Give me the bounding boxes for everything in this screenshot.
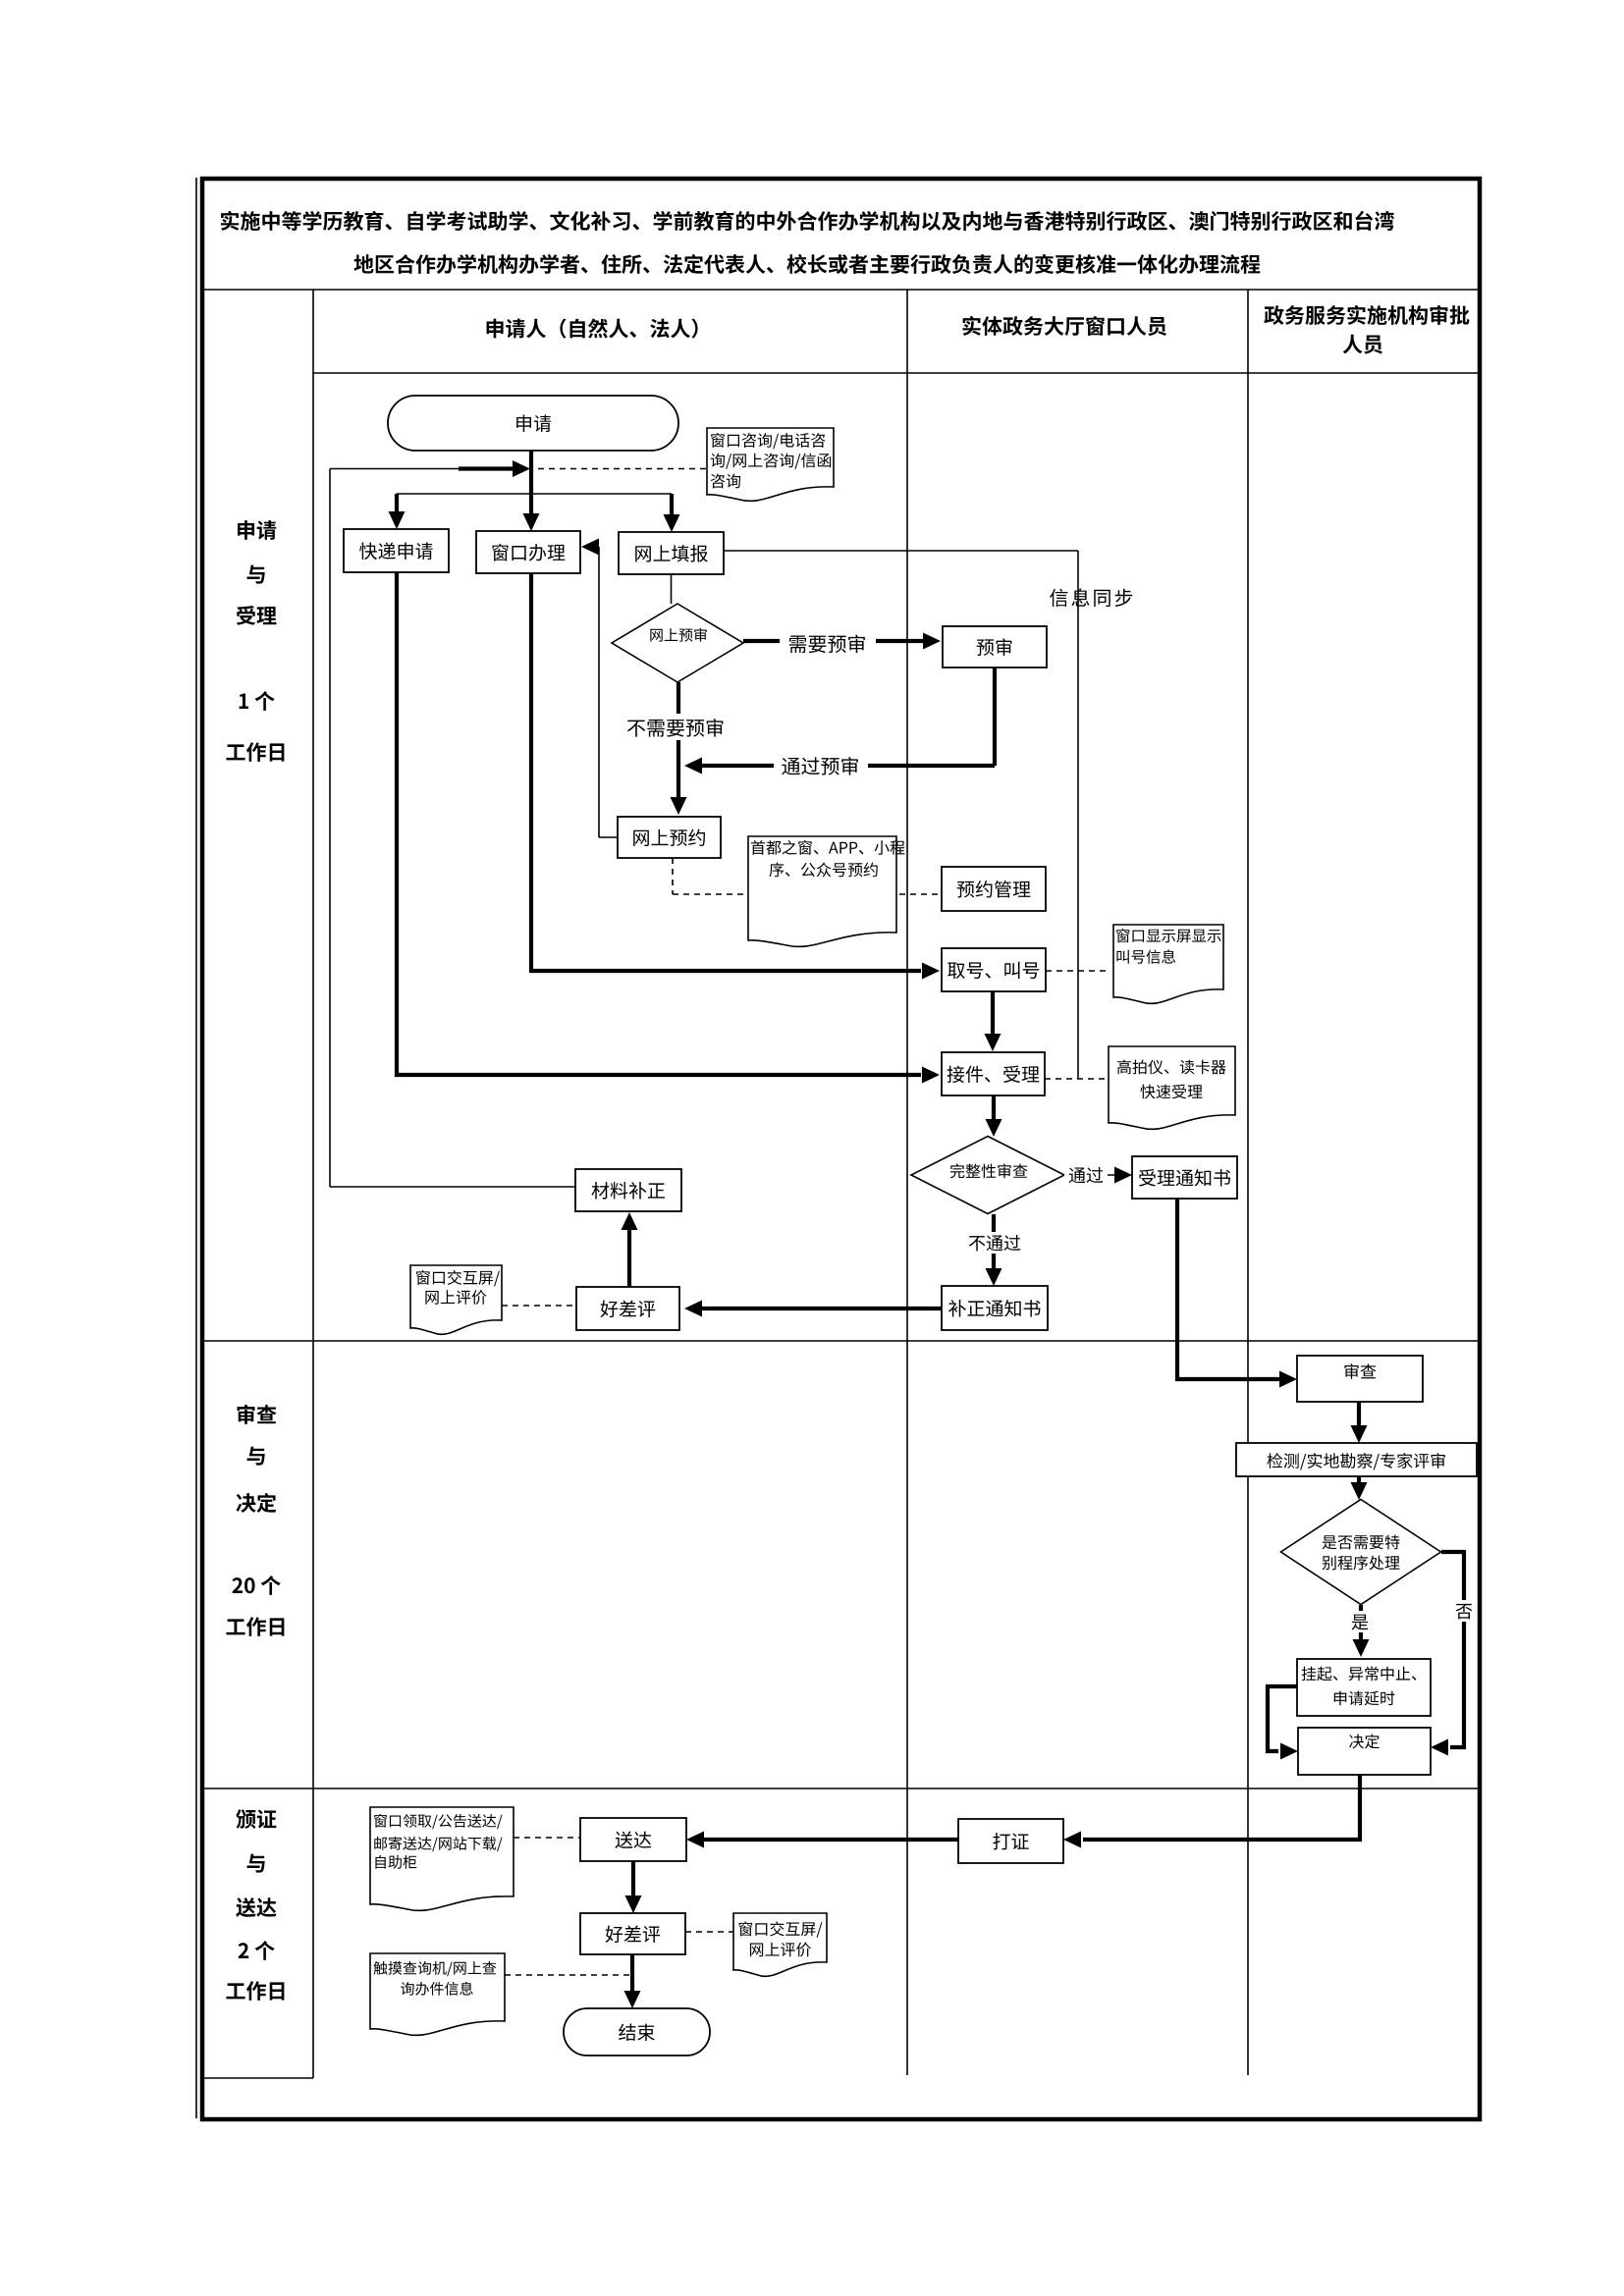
svg-text:送达: 送达 bbox=[236, 1893, 277, 1922]
svg-text:快速受理: 快速受理 bbox=[1140, 1079, 1203, 1102]
svg-text:2 个: 2 个 bbox=[238, 1936, 275, 1965]
svg-text:信息同步: 信息同步 bbox=[1050, 583, 1136, 612]
svg-text:别程序处理: 别程序处理 bbox=[1322, 1550, 1400, 1574]
svg-text:政务服务实施机构审批: 政务服务实施机构审批 bbox=[1264, 300, 1470, 330]
svg-text:与: 与 bbox=[246, 1848, 267, 1878]
svg-text:首都之窗、APP、小程: 首都之窗、APP、小程 bbox=[750, 835, 905, 859]
svg-text:预约管理: 预约管理 bbox=[956, 876, 1031, 902]
svg-text:取号、叫号: 取号、叫号 bbox=[947, 957, 1040, 984]
svg-text:补正通知书: 补正通知书 bbox=[947, 1295, 1041, 1321]
svg-text:决定: 决定 bbox=[236, 1488, 277, 1518]
svg-text:工作日: 工作日 bbox=[226, 1976, 288, 2005]
svg-text:1 个: 1 个 bbox=[238, 686, 275, 716]
svg-text:网上评价: 网上评价 bbox=[748, 1937, 811, 1960]
svg-text:不通过: 不通过 bbox=[968, 1230, 1021, 1255]
svg-text:工作日: 工作日 bbox=[226, 1612, 288, 1641]
svg-text:询办件信息: 询办件信息 bbox=[400, 1979, 473, 2000]
svg-text:检测/实地勘察/专家评审: 检测/实地勘察/专家评审 bbox=[1267, 1448, 1446, 1472]
svg-text:窗口显示屏显示: 窗口显示屏显示 bbox=[1115, 925, 1222, 946]
svg-text:窗口办理: 窗口办理 bbox=[491, 539, 566, 565]
svg-text:工作日: 工作日 bbox=[226, 737, 288, 767]
svg-text:需要预审: 需要预审 bbox=[788, 629, 867, 658]
svg-text:窗口领取/公告送达/: 窗口领取/公告送达/ bbox=[373, 1811, 503, 1832]
svg-text:叫号信息: 叫号信息 bbox=[1115, 946, 1176, 968]
svg-text:触摸查询机/网上查: 触摸查询机/网上查 bbox=[373, 1958, 497, 1979]
svg-text:申请: 申请 bbox=[236, 515, 277, 545]
svg-text:否: 否 bbox=[1455, 1598, 1473, 1624]
svg-text:申请人（自然人、法人）: 申请人（自然人、法人） bbox=[485, 314, 712, 344]
svg-text:挂起、异常中止、: 挂起、异常中止、 bbox=[1301, 1661, 1427, 1684]
svg-text:受理通知书: 受理通知书 bbox=[1138, 1164, 1231, 1191]
svg-text:人员: 人员 bbox=[1342, 330, 1383, 359]
svg-text:通过预审: 通过预审 bbox=[782, 751, 860, 779]
svg-text:与: 与 bbox=[246, 560, 267, 589]
svg-text:网上预审: 网上预审 bbox=[649, 625, 708, 646]
svg-text:自助柜: 自助柜 bbox=[373, 1852, 417, 1873]
svg-text:通过: 通过 bbox=[1068, 1162, 1104, 1188]
svg-text:不需要预审: 不需要预审 bbox=[626, 713, 725, 741]
svg-text:受理: 受理 bbox=[236, 601, 277, 630]
svg-text:完整性审查: 完整性审查 bbox=[949, 1158, 1028, 1182]
svg-text:决定: 决定 bbox=[1348, 1729, 1380, 1752]
svg-text:实施中等学历教育、自学考试助学、文化补习、学前教育的中外合作: 实施中等学历教育、自学考试助学、文化补习、学前教育的中外合作办学机构以及内地与香… bbox=[220, 206, 1395, 236]
svg-text:咨询: 咨询 bbox=[710, 468, 741, 492]
svg-text:网上预约: 网上预约 bbox=[631, 825, 706, 851]
svg-text:快递申请: 快递申请 bbox=[358, 538, 433, 564]
svg-text:好差评: 好差评 bbox=[600, 1296, 656, 1322]
svg-text:打证: 打证 bbox=[992, 1828, 1029, 1854]
svg-text:材料补正: 材料补正 bbox=[591, 1177, 666, 1203]
svg-text:序、公众号预约: 序、公众号预约 bbox=[769, 857, 879, 881]
svg-text:颁证: 颁证 bbox=[236, 1804, 277, 1834]
svg-text:地区合作办学机构办学者、住所、法定代表人、校长或者主要行政负: 地区合作办学机构办学者、住所、法定代表人、校长或者主要行政负责人的变更核准一体化… bbox=[353, 249, 1261, 279]
svg-text:高拍仪、读卡器: 高拍仪、读卡器 bbox=[1116, 1054, 1226, 1078]
svg-text:接件、受理: 接件、受理 bbox=[947, 1061, 1040, 1088]
svg-text:申请延时: 申请延时 bbox=[1332, 1685, 1395, 1709]
svg-text:邮寄送达/网站下载/: 邮寄送达/网站下载/ bbox=[373, 1834, 503, 1854]
svg-text:审查: 审查 bbox=[236, 1400, 277, 1429]
svg-text:预审: 预审 bbox=[976, 634, 1013, 661]
svg-text:网上填报: 网上填报 bbox=[633, 540, 708, 566]
svg-text:好差评: 好差评 bbox=[605, 1921, 661, 1948]
svg-text:网上评价: 网上评价 bbox=[424, 1285, 487, 1308]
svg-text:20 个: 20 个 bbox=[232, 1571, 282, 1600]
svg-text:申请: 申请 bbox=[514, 410, 552, 437]
svg-text:实体政务大厅窗口人员: 实体政务大厅窗口人员 bbox=[961, 311, 1167, 341]
svg-text:结束: 结束 bbox=[618, 2019, 655, 2046]
svg-text:送达: 送达 bbox=[615, 1827, 652, 1853]
svg-text:审查: 审查 bbox=[1343, 1359, 1377, 1383]
svg-text:是: 是 bbox=[1351, 1609, 1369, 1634]
svg-text:与: 与 bbox=[246, 1441, 267, 1470]
